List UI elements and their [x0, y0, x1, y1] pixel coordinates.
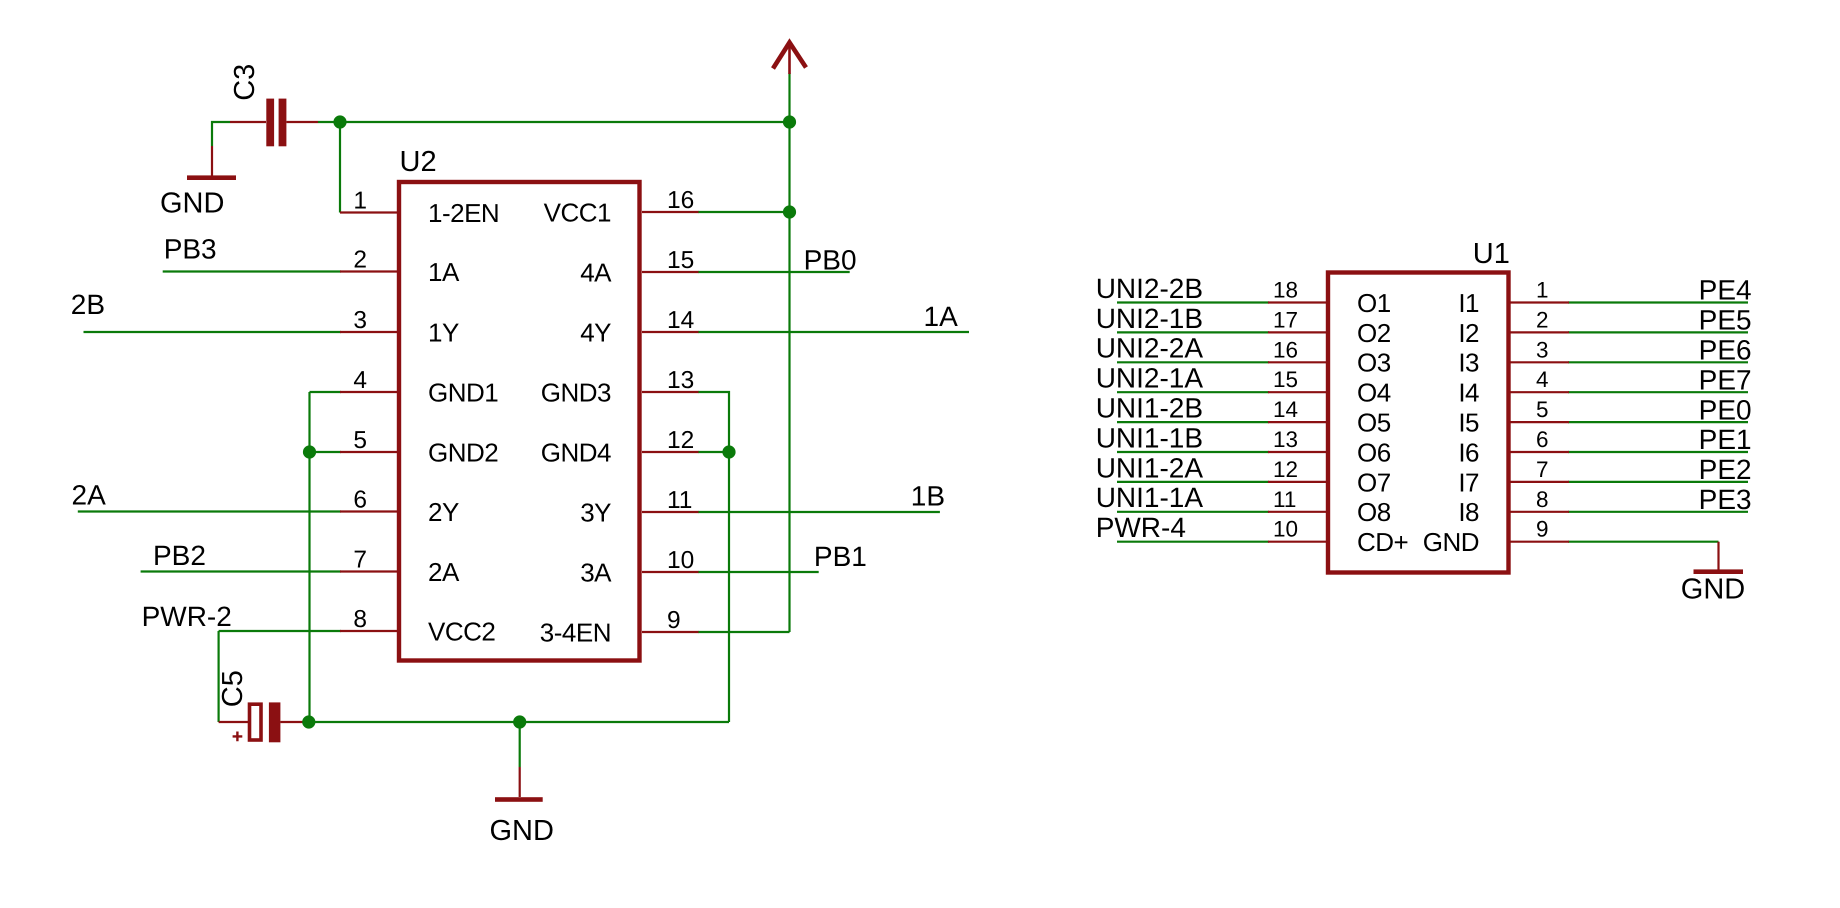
- svg-text:I3: I3: [1458, 348, 1479, 378]
- svg-text:2: 2: [1536, 307, 1549, 332]
- svg-text:2: 2: [353, 247, 367, 274]
- svg-text:UNI1-2B: UNI1-2B: [1096, 393, 1203, 424]
- svg-text:PB0: PB0: [804, 245, 857, 276]
- svg-text:O7: O7: [1357, 467, 1391, 497]
- svg-text:14: 14: [1273, 397, 1298, 422]
- svg-text:VCC2: VCC2: [428, 616, 495, 646]
- svg-text:I7: I7: [1458, 467, 1479, 497]
- svg-text:11: 11: [1273, 487, 1296, 512]
- svg-text:6: 6: [1536, 427, 1549, 452]
- svg-text:2A: 2A: [428, 557, 460, 587]
- svg-text:I6: I6: [1458, 437, 1479, 467]
- svg-text:O1: O1: [1357, 288, 1391, 318]
- svg-text:12: 12: [1273, 457, 1298, 482]
- svg-text:U1: U1: [1473, 238, 1510, 270]
- svg-text:16: 16: [667, 187, 694, 214]
- svg-text:PE0: PE0: [1699, 394, 1752, 425]
- svg-text:UNI1-2A: UNI1-2A: [1096, 452, 1204, 483]
- svg-text:3: 3: [353, 307, 367, 334]
- svg-text:3: 3: [1536, 337, 1549, 362]
- svg-text:O8: O8: [1357, 497, 1391, 527]
- svg-text:1-2EN: 1-2EN: [428, 198, 499, 228]
- svg-text:1: 1: [1536, 278, 1549, 303]
- svg-text:O2: O2: [1357, 318, 1391, 348]
- svg-text:8: 8: [353, 606, 367, 633]
- svg-text:O3: O3: [1357, 348, 1391, 378]
- svg-text:1A: 1A: [428, 257, 460, 287]
- svg-text:14: 14: [667, 307, 694, 334]
- svg-text:GND: GND: [1681, 574, 1745, 606]
- svg-text:7: 7: [353, 547, 367, 574]
- svg-text:GND1: GND1: [428, 377, 498, 407]
- svg-text:PE7: PE7: [1699, 364, 1752, 395]
- svg-text:GND3: GND3: [541, 377, 611, 407]
- svg-text:1: 1: [353, 188, 367, 215]
- svg-text:PB2: PB2: [153, 540, 206, 571]
- svg-text:13: 13: [667, 367, 694, 394]
- svg-text:2Y: 2Y: [428, 497, 459, 527]
- svg-text:3-4EN: 3-4EN: [540, 617, 611, 647]
- svg-text:1Y: 1Y: [428, 317, 459, 347]
- svg-text:6: 6: [353, 487, 367, 514]
- svg-text:UNI2-2A: UNI2-2A: [1096, 333, 1204, 364]
- svg-text:PB3: PB3: [164, 233, 217, 264]
- svg-text:PE2: PE2: [1699, 454, 1752, 485]
- svg-text:17: 17: [1273, 307, 1298, 332]
- svg-text:UNI1-1A: UNI1-1A: [1096, 482, 1204, 513]
- svg-text:I8: I8: [1458, 497, 1479, 527]
- svg-text:GND: GND: [160, 187, 224, 219]
- svg-text:10: 10: [667, 547, 694, 574]
- svg-text:I5: I5: [1458, 408, 1479, 438]
- svg-text:UNI2-1A: UNI2-1A: [1096, 363, 1204, 394]
- svg-text:UNI2-1B: UNI2-1B: [1096, 303, 1203, 334]
- svg-text:8: 8: [1536, 487, 1549, 512]
- svg-text:4A: 4A: [580, 257, 612, 287]
- svg-text:PE3: PE3: [1699, 484, 1752, 515]
- svg-text:10: 10: [1273, 517, 1298, 542]
- svg-text:PE1: PE1: [1699, 424, 1752, 455]
- svg-text:5: 5: [1536, 397, 1549, 422]
- svg-text:CD+: CD+: [1357, 527, 1408, 557]
- svg-text:3Y: 3Y: [580, 497, 611, 527]
- svg-text:O4: O4: [1357, 378, 1391, 408]
- svg-text:7: 7: [1536, 457, 1549, 482]
- svg-text:GND: GND: [490, 815, 554, 847]
- svg-text:C5: C5: [217, 670, 249, 707]
- svg-text:9: 9: [1536, 517, 1549, 542]
- svg-text:4: 4: [1536, 367, 1549, 392]
- svg-text:2B: 2B: [71, 289, 105, 320]
- svg-text:PWR-4: PWR-4: [1096, 512, 1186, 543]
- svg-text:5: 5: [353, 427, 367, 454]
- svg-text:UNI2-2B: UNI2-2B: [1096, 273, 1203, 304]
- svg-text:4: 4: [353, 367, 367, 394]
- svg-text:1A: 1A: [924, 301, 959, 332]
- svg-text:PE4: PE4: [1699, 275, 1752, 306]
- svg-text:GND4: GND4: [541, 437, 611, 467]
- svg-text:4Y: 4Y: [580, 317, 611, 347]
- svg-text:16: 16: [1273, 337, 1298, 362]
- svg-text:O6: O6: [1357, 437, 1391, 467]
- svg-text:I4: I4: [1458, 378, 1479, 408]
- svg-text:11: 11: [667, 487, 692, 514]
- svg-text:15: 15: [1273, 367, 1298, 392]
- svg-text:C3: C3: [229, 64, 261, 101]
- svg-text:UNI1-1B: UNI1-1B: [1096, 422, 1203, 453]
- svg-text:3A: 3A: [580, 557, 612, 587]
- svg-text:I1: I1: [1458, 288, 1479, 318]
- svg-text:PE5: PE5: [1699, 305, 1752, 336]
- svg-text:PE6: PE6: [1699, 335, 1752, 366]
- svg-text:I2: I2: [1458, 318, 1479, 348]
- svg-text:2A: 2A: [72, 480, 107, 511]
- svg-text:18: 18: [1273, 278, 1298, 303]
- svg-text:U2: U2: [400, 146, 437, 178]
- svg-text:13: 13: [1273, 427, 1298, 452]
- svg-text:O5: O5: [1357, 408, 1391, 438]
- svg-text:1B: 1B: [911, 481, 945, 512]
- svg-text:12: 12: [667, 427, 694, 454]
- svg-text:GND2: GND2: [428, 437, 498, 467]
- svg-text:9: 9: [667, 607, 681, 634]
- svg-text:PWR-2: PWR-2: [142, 601, 232, 632]
- svg-text:PB1: PB1: [814, 541, 867, 572]
- svg-text:VCC1: VCC1: [544, 197, 611, 227]
- svg-text:15: 15: [667, 247, 694, 274]
- svg-text:GND: GND: [1423, 527, 1479, 557]
